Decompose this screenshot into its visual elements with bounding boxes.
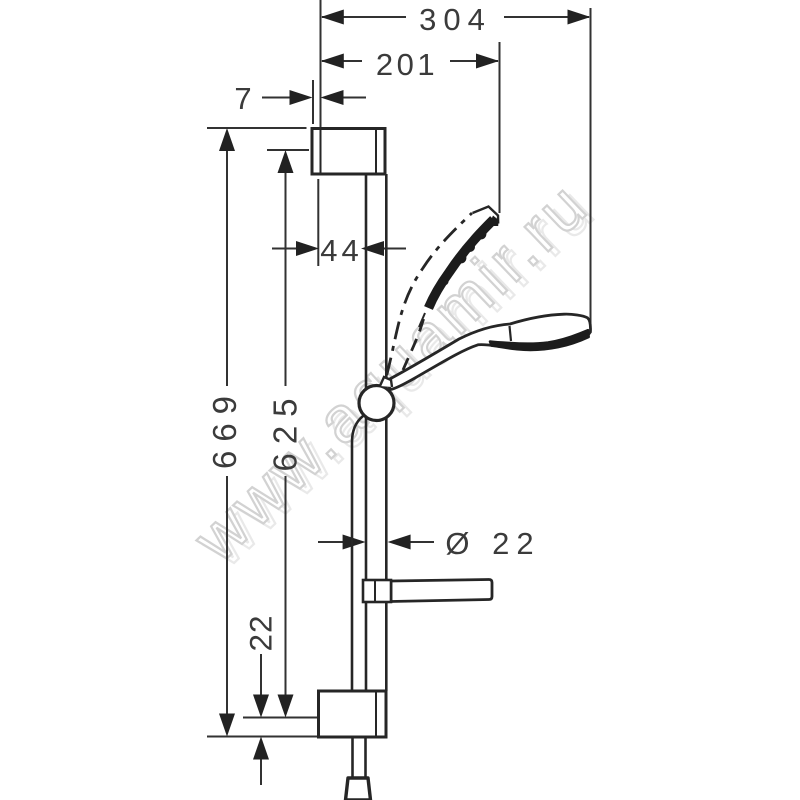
svg-text:Ø 22: Ø 22 (445, 526, 540, 561)
svg-text:625: 625 (267, 389, 304, 471)
svg-text:201: 201 (376, 47, 438, 82)
svg-text:304: 304 (419, 2, 492, 37)
svg-text:7: 7 (234, 81, 251, 116)
svg-text:22: 22 (243, 614, 279, 651)
svg-text:669: 669 (206, 387, 243, 469)
svg-text:44: 44 (320, 233, 362, 268)
